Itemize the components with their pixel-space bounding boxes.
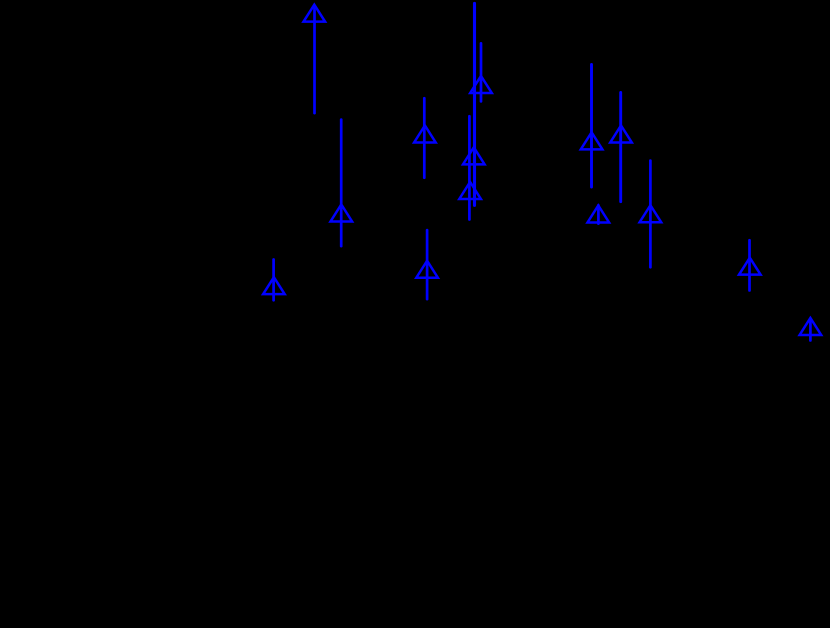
error bar point 4 [480,43,483,101]
error bar point 10 [619,92,622,201]
error bar point 9 [590,64,593,187]
error bar point 13 [748,240,751,290]
marker triangle point 9 [581,132,603,149]
error bar point 1 [313,8,316,113]
marker triangle point 5 [463,147,485,164]
marker triangle point 10 [610,125,632,142]
marker triangle point 1 [304,5,326,22]
marker triangle point 12 [640,205,662,222]
marker triangle point 13 [739,258,761,275]
marker triangle point 4 [470,76,492,93]
error bar point 14 [809,319,812,340]
marker triangle point 3 [414,125,436,142]
error bar point 12 [649,161,652,268]
marker triangle point 8 [263,277,285,294]
marker triangle point 7 [416,261,438,278]
marker triangle point 2 [331,204,353,221]
error bar point 6 [468,116,471,219]
error bar point 8 [272,259,275,300]
error bar point 7 [426,230,429,299]
error bar point 5 [473,3,476,205]
error bar point 2 [340,120,343,246]
error bar point 3 [423,98,426,178]
marker triangle point 11 [588,205,610,222]
error bar point 11 [597,205,600,223]
marker triangle point 14 [800,318,822,335]
marker triangle point 6 [459,182,481,199]
